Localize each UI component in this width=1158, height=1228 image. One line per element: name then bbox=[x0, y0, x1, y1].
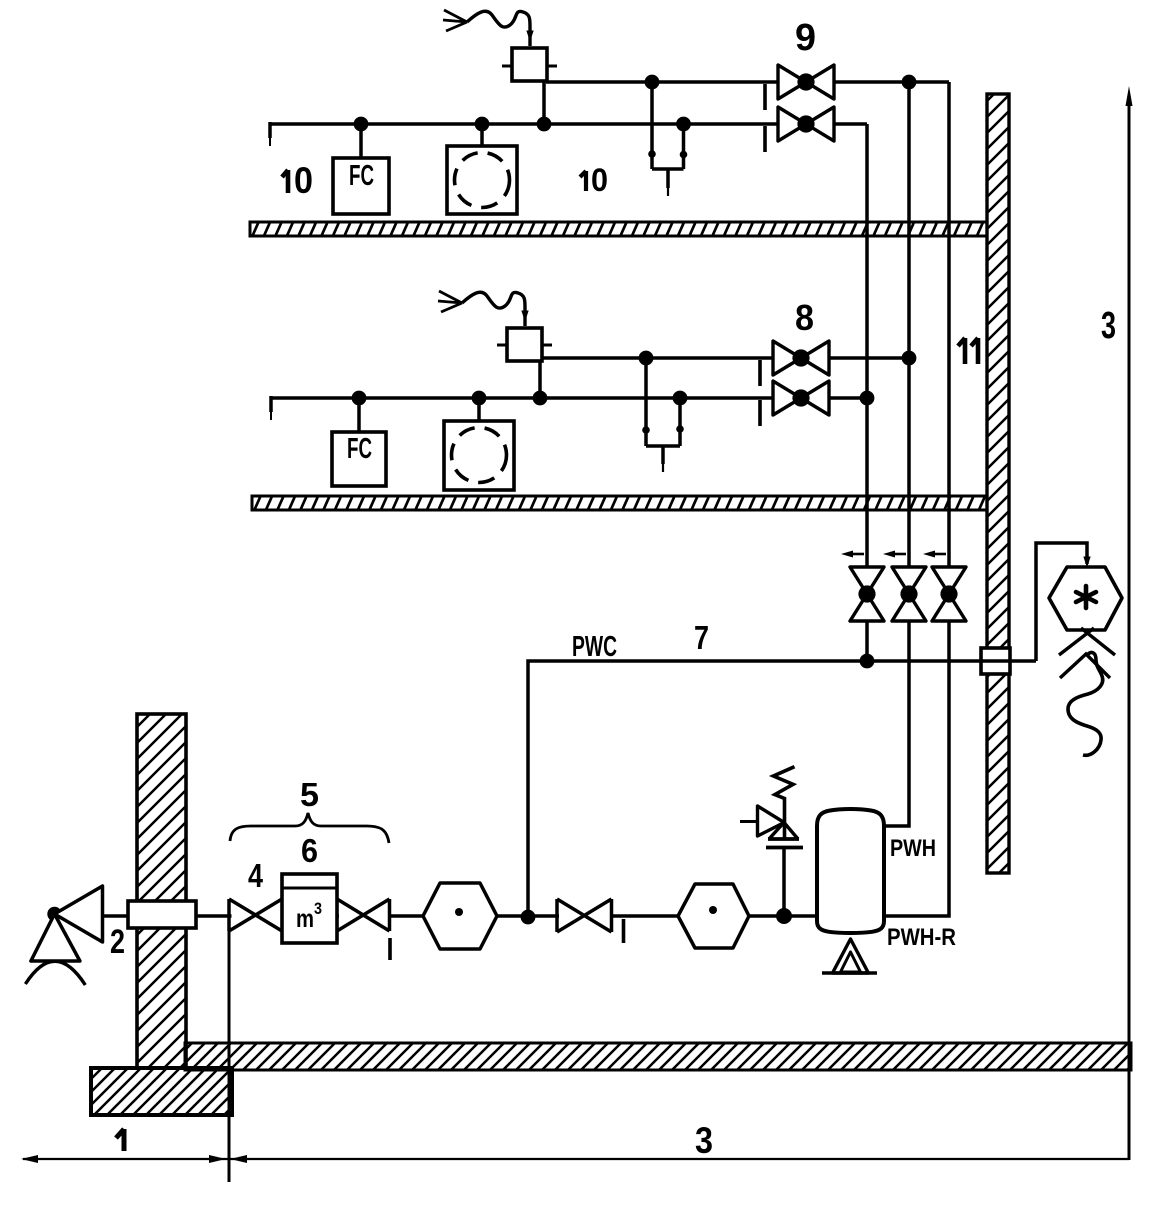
wall sleeve at main pipe bbox=[128, 901, 196, 928]
left wall bbox=[137, 714, 186, 1068]
floor1 twin outlet U drop bbox=[648, 82, 687, 196]
flow arrow riser PWH-R bbox=[923, 551, 946, 558]
floor1 node riser PWH tap bbox=[902, 75, 917, 90]
house connection symbol 2 bbox=[25, 886, 102, 985]
label PWC bbox=[572, 631, 617, 663]
node safety group tee bbox=[776, 908, 792, 924]
floor1 node at FC drop bbox=[354, 117, 369, 158]
main service pipe bbox=[102, 914, 817, 918]
floor2 drain tick lower bbox=[758, 400, 762, 426]
riser PWH vertical bbox=[884, 82, 909, 826]
water meter box 6 bbox=[282, 874, 337, 943]
floor1 node upper pipe to twin-outlet bbox=[645, 75, 660, 90]
svg-text:9: 9 bbox=[795, 17, 816, 59]
bottom dimension line bbox=[21, 1155, 1129, 1163]
label PWH-R bbox=[887, 924, 956, 951]
service connection line 3 vertical bbox=[1126, 86, 1133, 1160]
floor1 drain tick lower bbox=[763, 126, 767, 152]
shutoff valve 4b bbox=[337, 899, 390, 931]
svg-text:m: m bbox=[296, 905, 314, 933]
floor1 node at control box drop bbox=[537, 117, 552, 132]
label PWH bbox=[890, 835, 936, 862]
floor1 FC controller box bbox=[333, 158, 389, 214]
floor2 node upper pipe to twin-outlet bbox=[639, 351, 654, 366]
svg-text:7: 7 bbox=[694, 619, 709, 656]
label 3 bottom bbox=[695, 1120, 713, 1161]
svg-text:PWC: PWC bbox=[572, 631, 617, 663]
PWC distribution line bbox=[528, 661, 1036, 917]
floor2 branch upper pipe bbox=[541, 356, 909, 360]
brace 5 bbox=[230, 813, 389, 843]
strainer hexagon 1 bbox=[423, 883, 497, 949]
svg-text:8: 8 bbox=[795, 297, 814, 338]
floor1 branch lower pipe bbox=[270, 122, 867, 126]
riser PWC vertical bbox=[865, 124, 869, 661]
strainer hexagon 2 bbox=[678, 884, 749, 948]
floor slab level 1 bbox=[250, 222, 987, 236]
valve 8a upper bbox=[773, 341, 829, 375]
svg-text:6: 6 bbox=[301, 832, 318, 869]
svg-text:4: 4 bbox=[248, 857, 264, 894]
pipe drop to footing bbox=[228, 931, 231, 1182]
floor slab level 2 bbox=[252, 496, 987, 510]
wall 11 bbox=[987, 94, 1009, 873]
label 3 upper right bbox=[1101, 305, 1116, 347]
svg-text:3: 3 bbox=[695, 1120, 713, 1161]
svg-text:PWH: PWH bbox=[890, 835, 936, 862]
water meter hexagon with star bbox=[1049, 567, 1122, 630]
shutoff valve 4a bbox=[229, 899, 282, 931]
floor2 fan-coil unit box bbox=[444, 421, 514, 490]
floor2 FC controller box bbox=[332, 432, 386, 486]
label 10 right bbox=[580, 162, 608, 198]
floor2 control box U2 bbox=[497, 328, 552, 398]
label 5 bbox=[300, 776, 319, 813]
safety relief valve group bbox=[740, 767, 803, 916]
floor1 fan-coil unit box bbox=[447, 146, 517, 214]
flow arrow riser PWH bbox=[883, 551, 906, 558]
label 10 left bbox=[282, 160, 313, 201]
flexible hose squiggle bbox=[1068, 653, 1103, 756]
wall sleeve at PWC line bbox=[981, 648, 1010, 674]
label 7 bbox=[694, 619, 709, 656]
riser valve PWC bbox=[850, 567, 884, 621]
garden tap feed pipe bbox=[1036, 543, 1090, 661]
storage water heater tank bbox=[817, 809, 884, 933]
floor2 branch lower pipe bbox=[271, 396, 867, 400]
riser valve PWH-R bbox=[932, 567, 966, 621]
svg-text:FC: FC bbox=[347, 433, 372, 465]
floor2 node riser PWC junction bbox=[860, 391, 875, 406]
label 4 bbox=[248, 857, 264, 894]
label 2 bbox=[110, 923, 125, 961]
svg-text:3: 3 bbox=[1101, 305, 1116, 347]
floor2 node lower pipe to twin-outlet bbox=[673, 391, 688, 406]
floor1 air vent squiggle bbox=[443, 10, 533, 46]
svg-text:3: 3 bbox=[314, 899, 322, 918]
bottom floor slab bbox=[185, 1043, 1131, 1070]
outlet chevron bbox=[1060, 654, 1110, 678]
drain tick after mid valve bbox=[622, 919, 626, 943]
floor2 twin outlet U drop bbox=[642, 358, 684, 472]
node riser PWC base bbox=[860, 654, 875, 669]
riser valve PWH bbox=[892, 567, 926, 621]
valve 9b lower bbox=[778, 107, 834, 141]
label 6 bbox=[301, 832, 318, 869]
svg-text:PWH-R: PWH-R bbox=[887, 924, 956, 951]
outlet cross below hexagon bbox=[1059, 628, 1115, 655]
label 11 bbox=[958, 338, 978, 364]
svg-text:2: 2 bbox=[110, 923, 125, 961]
label 9 bbox=[795, 17, 816, 59]
floor2 air vent squiggle bbox=[438, 291, 528, 326]
svg-text:0: 0 bbox=[294, 160, 313, 201]
svg-text:FC: FC bbox=[349, 160, 374, 192]
floor2 drain tick upper bbox=[758, 360, 762, 386]
floor1 node lower pipe to twin-outlet bbox=[676, 117, 691, 132]
flow arrow riser PWC bbox=[841, 551, 864, 558]
floor1 branch upper pipe bbox=[546, 80, 949, 84]
tank support bbox=[822, 939, 877, 973]
drain tick after valve 4b bbox=[388, 938, 392, 960]
floor2 node at fan-coil drop bbox=[472, 391, 487, 421]
floor2 node at FC drop bbox=[352, 391, 367, 432]
floor2 node at control box drop bbox=[533, 391, 548, 406]
floor1 node at fan-coil drop bbox=[475, 117, 490, 146]
riser PWH-R vertical bbox=[884, 82, 949, 916]
floor1 lower pipe left end stub bbox=[268, 122, 272, 146]
floor2 lower pipe left end stub bbox=[269, 396, 273, 420]
label 8 bbox=[795, 297, 814, 338]
valve 8b lower bbox=[773, 381, 829, 415]
floor2 node riser PWH tap bbox=[902, 351, 917, 366]
label 1 bbox=[116, 1129, 124, 1151]
svg-text:0: 0 bbox=[591, 162, 608, 198]
floor1 drain tick upper bbox=[763, 84, 767, 110]
shutoff valve mid bbox=[557, 899, 612, 932]
left wall footing bbox=[91, 1068, 232, 1115]
svg-text:5: 5 bbox=[300, 776, 319, 813]
floor1 control box U1 bbox=[502, 48, 557, 124]
valve 9a upper bbox=[778, 65, 834, 99]
node PWC riser base bbox=[521, 910, 536, 925]
